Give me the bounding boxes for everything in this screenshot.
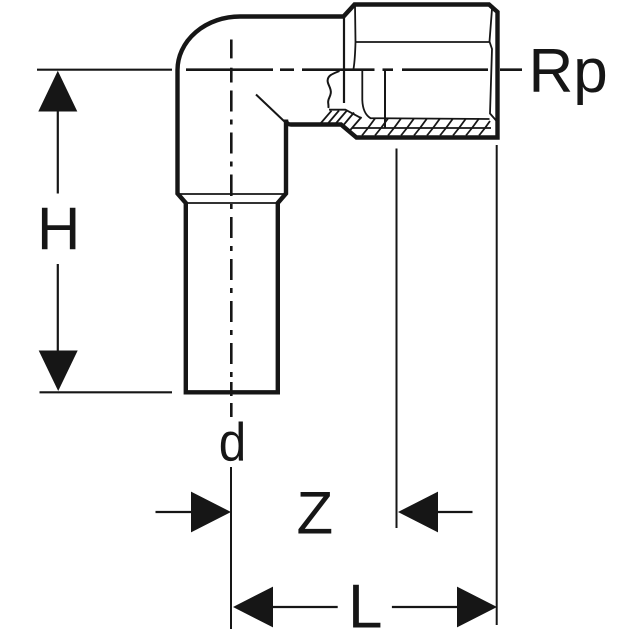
svg-text:Rp: Rp (529, 37, 608, 106)
step thin lines at elbow/pipe transition (178, 193, 286, 195)
svg-text:d: d (219, 413, 247, 473)
svg-text:L: L (348, 573, 382, 640)
vertical centerline of pipe (dash-dot) (230, 40, 233, 418)
thread hatch row 1 (368, 119, 490, 129)
svg-text:Z: Z (297, 479, 334, 546)
thread crest step boundary (329, 110, 362, 119)
L right extension line (496, 145, 498, 625)
H dimension: bottom boundary line (40, 391, 173, 393)
thread end line (384, 70, 386, 128)
Z dimension (156, 511, 193, 513)
L dimension (273, 606, 338, 608)
fitting body outline (178, 5, 498, 393)
left corner hatch (321, 111, 362, 132)
thread root divider (352, 127, 491, 129)
H arrows (38, 71, 77, 112)
horizontal centerline dash-dot through fitting (186, 68, 522, 71)
inner bend diagonal line (256, 95, 286, 123)
hex facet line (356, 41, 490, 43)
bore edge / thread crest left (362, 71, 489, 120)
thread hatch row 2 (362, 128, 485, 136)
socket left face line (343, 17, 345, 103)
horizontal centerline (solid left part = H top boundary) (37, 69, 172, 71)
upper-left inner edge (354, 5, 356, 69)
svg-text:H: H (37, 196, 80, 263)
weld wavy line (328, 71, 340, 108)
Z right extension line (396, 149, 398, 529)
H dim vertical segments (57, 111, 59, 194)
inner right edge with kink and chamfer (490, 5, 498, 122)
pipe centerline extension (below d) (230, 467, 232, 629)
